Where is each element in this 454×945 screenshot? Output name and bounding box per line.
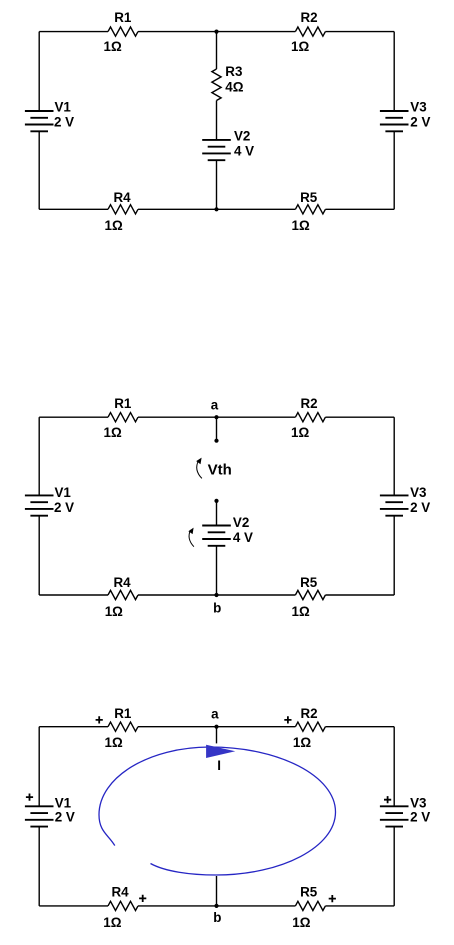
resistor R2 (circuit 3) bbox=[293, 706, 326, 750]
wire bottom-left (circuit 1) bbox=[39, 208, 108, 210]
svg-text:1Ω: 1Ω bbox=[291, 425, 309, 440]
node a label (circuit 2) bbox=[211, 397, 219, 412]
svg-text:b: b bbox=[213, 910, 221, 925]
wire left-upper (circuit 1) bbox=[38, 32, 40, 111]
current arrow head I (circuit 3) bbox=[206, 745, 235, 758]
svg-text:1Ω: 1Ω bbox=[105, 604, 123, 619]
svg-text:Vth: Vth bbox=[208, 462, 232, 479]
V2 polarity arrow (circuit 2) bbox=[188, 528, 194, 547]
svg-text:V2: V2 bbox=[233, 515, 249, 530]
resistor R5 (circuit 2) bbox=[292, 575, 326, 619]
wire top-right (circuit 3) bbox=[325, 726, 394, 728]
plus sign V3 (circuit 3) bbox=[384, 796, 391, 803]
wire bottom-middle (circuit 2) bbox=[138, 594, 295, 596]
wire bottom-left (circuit 3) bbox=[39, 905, 108, 907]
plus sign V1 (circuit 3) bbox=[26, 794, 33, 801]
label Vth (circuit 2) bbox=[208, 462, 232, 479]
wire stub to b (circuit 3) bbox=[216, 876, 218, 906]
resistor R2 (circuit 2) bbox=[291, 396, 325, 440]
plus sign R4 (circuit 3) bbox=[139, 895, 146, 902]
label V2 4V (circuit 1) bbox=[234, 128, 254, 158]
svg-text:a: a bbox=[211, 706, 219, 721]
svg-text:R3: R3 bbox=[225, 64, 242, 79]
node b junction (circuit 2) bbox=[214, 593, 218, 597]
battery V3 (circuit 3) bbox=[380, 806, 409, 826]
battery V2 (circuit 1) bbox=[202, 140, 231, 160]
wire V2 upper (circuit 2) bbox=[216, 501, 218, 526]
svg-text:R2: R2 bbox=[301, 10, 318, 25]
wire left-lower (circuit 3) bbox=[38, 827, 40, 906]
svg-text:R4: R4 bbox=[112, 885, 130, 900]
svg-text:R5: R5 bbox=[300, 190, 318, 205]
wire top-left (circuit 1) bbox=[39, 31, 108, 33]
svg-text:2 V: 2 V bbox=[410, 500, 430, 515]
wire right-lower (circuit 2) bbox=[393, 516, 395, 595]
svg-text:2 V: 2 V bbox=[410, 114, 430, 129]
wire top-right (circuit 2) bbox=[325, 416, 394, 418]
resistor R4 (circuit 1) bbox=[105, 190, 139, 233]
svg-text:R2: R2 bbox=[301, 396, 318, 411]
wire stub from a (circuit 3) bbox=[216, 727, 218, 744]
svg-text:1Ω: 1Ω bbox=[104, 39, 122, 54]
wire bottom-right (circuit 1) bbox=[325, 208, 394, 210]
wire top-middle (circuit 2) bbox=[138, 416, 295, 418]
wire middle (circuit 1) bbox=[216, 101, 218, 140]
current loop arc (circuit 3) bbox=[99, 747, 336, 875]
wire stub from a (circuit 2) bbox=[216, 417, 218, 441]
label V3 2V (circuit 1) bbox=[410, 100, 430, 130]
node b label (circuit 2) bbox=[213, 601, 221, 616]
wire middle-lower (circuit 1) bbox=[216, 160, 218, 209]
wire top-middle (circuit 1) bbox=[138, 31, 295, 33]
resistor R5 (circuit 1) bbox=[292, 190, 326, 233]
wire left-upper (circuit 2) bbox=[38, 417, 40, 495]
svg-text:V2: V2 bbox=[234, 128, 250, 143]
node top-middle (circuit 1) bbox=[214, 30, 218, 34]
svg-text:V3: V3 bbox=[410, 485, 426, 500]
svg-text:1Ω: 1Ω bbox=[103, 915, 121, 930]
wire bottom-middle (circuit 1) bbox=[138, 208, 295, 210]
wire left-lower (circuit 1) bbox=[38, 131, 40, 209]
wire bottom-left (circuit 2) bbox=[39, 594, 108, 596]
resistor R3 (circuit 1) bbox=[212, 64, 244, 100]
terminal a (circuit 2) bbox=[214, 439, 218, 443]
svg-text:2 V: 2 V bbox=[54, 500, 74, 515]
wire top-left (circuit 3) bbox=[39, 726, 108, 728]
resistor R4 (circuit 2) bbox=[105, 575, 138, 619]
wire left-upper (circuit 3) bbox=[38, 727, 40, 807]
svg-text:1Ω: 1Ω bbox=[292, 604, 310, 619]
wire bottom-middle (circuit 3) bbox=[138, 905, 295, 907]
node b label (circuit 3) bbox=[213, 910, 221, 925]
svg-text:b: b bbox=[213, 601, 221, 616]
Vth arrow (circuit 2) bbox=[196, 458, 202, 479]
label V3 2V (circuit 3) bbox=[410, 796, 430, 825]
svg-text:2 V: 2 V bbox=[410, 810, 430, 825]
wire right-upper (circuit 3) bbox=[393, 727, 395, 807]
resistor R1 (circuit 2) bbox=[104, 396, 139, 440]
svg-text:1Ω: 1Ω bbox=[292, 218, 310, 233]
svg-text:R1: R1 bbox=[114, 10, 132, 25]
svg-text:I: I bbox=[217, 758, 221, 773]
svg-text:R1: R1 bbox=[114, 396, 132, 411]
svg-text:R2: R2 bbox=[301, 706, 318, 721]
svg-text:R1: R1 bbox=[114, 706, 132, 721]
svg-text:V3: V3 bbox=[410, 100, 426, 115]
svg-text:R5: R5 bbox=[300, 575, 318, 590]
svg-text:4Ω: 4Ω bbox=[225, 79, 243, 94]
svg-text:1Ω: 1Ω bbox=[104, 425, 122, 440]
resistor R1 (circuit 1) bbox=[104, 10, 139, 54]
resistor R1 (circuit 3) bbox=[105, 706, 139, 750]
node bottom-middle (circuit 1) bbox=[214, 207, 218, 211]
terminal V2+ (circuit 2) bbox=[214, 499, 218, 503]
svg-text:4 V: 4 V bbox=[233, 530, 253, 545]
resistor R5 (circuit 3) bbox=[292, 885, 325, 930]
svg-text:4 V: 4 V bbox=[234, 144, 254, 159]
plus sign R2 (circuit 3) bbox=[284, 716, 291, 723]
label V1 2V (circuit 1) bbox=[54, 100, 74, 130]
svg-text:V3: V3 bbox=[410, 796, 426, 811]
svg-text:1Ω: 1Ω bbox=[291, 39, 309, 54]
node a label (circuit 3) bbox=[211, 706, 219, 721]
svg-text:2 V: 2 V bbox=[55, 810, 75, 825]
svg-text:a: a bbox=[211, 397, 219, 412]
wire right-lower (circuit 3) bbox=[393, 827, 395, 906]
battery V1 (circuit 3) bbox=[25, 806, 54, 826]
label V2 4V (circuit 2) bbox=[233, 515, 253, 545]
node a junction (circuit 3) bbox=[214, 725, 218, 729]
node a junction (circuit 2) bbox=[214, 415, 218, 419]
svg-text:1Ω: 1Ω bbox=[292, 915, 310, 930]
battery V3 (circuit 2) bbox=[380, 495, 409, 515]
wire top-right (circuit 1) bbox=[325, 31, 394, 33]
plus sign R5 (circuit 3) bbox=[329, 895, 336, 902]
resistor R2 (circuit 1) bbox=[291, 10, 325, 54]
wire V2 lower (circuit 2) bbox=[216, 546, 218, 595]
svg-text:1Ω: 1Ω bbox=[105, 735, 123, 750]
battery V1 (circuit 1) bbox=[25, 111, 54, 131]
svg-text:V1: V1 bbox=[55, 100, 72, 115]
svg-text:R4: R4 bbox=[114, 190, 132, 205]
svg-text:R5: R5 bbox=[300, 885, 318, 900]
label V1 2V (circuit 2) bbox=[54, 485, 74, 515]
wire bottom-right (circuit 2) bbox=[325, 594, 394, 596]
battery V2 (circuit 2) bbox=[202, 526, 231, 546]
svg-text:2 V: 2 V bbox=[54, 114, 74, 129]
node b junction (circuit 3) bbox=[214, 904, 218, 908]
wire top-middle (circuit 3) bbox=[138, 726, 295, 728]
wire middle-upper (circuit 1) bbox=[216, 32, 218, 69]
battery V3 (circuit 1) bbox=[380, 111, 409, 131]
label V1 2V (circuit 3) bbox=[55, 796, 75, 825]
wire top-left (circuit 2) bbox=[39, 416, 108, 418]
plus sign R1 (circuit 3) bbox=[96, 716, 103, 723]
svg-text:V1: V1 bbox=[55, 485, 72, 500]
wire bottom-right (circuit 3) bbox=[325, 905, 394, 907]
resistor R4 (circuit 3) bbox=[103, 885, 138, 930]
svg-text:V1: V1 bbox=[55, 796, 72, 811]
label I (circuit 3) bbox=[217, 758, 221, 773]
svg-text:1Ω: 1Ω bbox=[105, 218, 123, 233]
wire left-lower (circuit 2) bbox=[38, 516, 40, 595]
svg-text:1Ω: 1Ω bbox=[293, 735, 311, 750]
label V3 2V (circuit 2) bbox=[410, 485, 430, 515]
wire right-upper (circuit 1) bbox=[393, 32, 395, 111]
battery V1 (circuit 2) bbox=[25, 495, 54, 515]
svg-text:R4: R4 bbox=[114, 575, 132, 590]
wire right-lower (circuit 1) bbox=[393, 131, 395, 209]
wire right-upper (circuit 2) bbox=[393, 417, 395, 495]
